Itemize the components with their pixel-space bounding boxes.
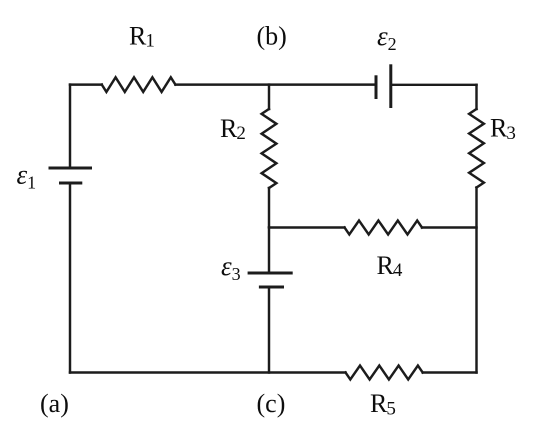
battery E3 long plate (248, 272, 293, 275)
wire middle vertical (R4 junction to battery E3) (268, 228, 270, 273)
svg-text:ε3: ε3 (221, 251, 241, 284)
wire left vertical bottom (battery E1 to bottom-left corner) (69, 184, 71, 373)
battery E2 short plate (375, 75, 378, 99)
resistor R2 (262, 109, 277, 188)
wire left vertical top (node a side, from top-left corner to battery E1) (69, 85, 71, 167)
resistor R4 (345, 221, 423, 235)
wire right vertical upper (corner to R3) (475, 85, 477, 109)
svg-text:R3: R3 (490, 114, 516, 144)
wire right vertical lower (R3 through R4 junction to bottom-right corner) (475, 188, 477, 373)
battery E3 short plate (259, 286, 284, 289)
svg-text:R4: R4 (377, 251, 403, 281)
svg-text:(a): (a) (40, 389, 69, 418)
svg-text:R2: R2 (220, 114, 246, 144)
resistor R1 (102, 77, 176, 92)
svg-text:R1: R1 (129, 21, 155, 51)
svg-text:ε1: ε1 (17, 159, 37, 192)
wire middle vertical top (node b to R2) (268, 85, 270, 109)
svg-text:ε2: ε2 (377, 21, 397, 54)
wire top horizontal middle (R1 to battery E2, through node b junction) (175, 83, 374, 85)
wire top horizontal right (battery E2 to top-right corner) (391, 84, 477, 86)
wire bottom horizontal right (R5 to bottom-right corner) (423, 371, 477, 373)
svg-text:(b): (b) (257, 22, 287, 51)
svg-text:R5: R5 (370, 389, 396, 419)
wire middle vertical (R2 to R4 junction) (268, 188, 270, 227)
svg-text:(c): (c) (257, 389, 286, 418)
wire R4 branch right (R4 to right vertical wire) (422, 226, 477, 228)
resistor R5 (346, 366, 423, 380)
battery E2 long plate (389, 64, 392, 108)
resistor R3 (469, 109, 484, 188)
battery E1 short plate (59, 182, 82, 185)
wire bottom horizontal left (node a corner to R5) (70, 371, 346, 373)
wire middle vertical bottom (battery E3 to bottom wire, node c) (268, 288, 270, 373)
battery E1 long plate (49, 167, 93, 170)
wire top horizontal left (corner to R1) (70, 83, 102, 85)
wire R4 branch left (middle branch to R4) (269, 226, 345, 228)
